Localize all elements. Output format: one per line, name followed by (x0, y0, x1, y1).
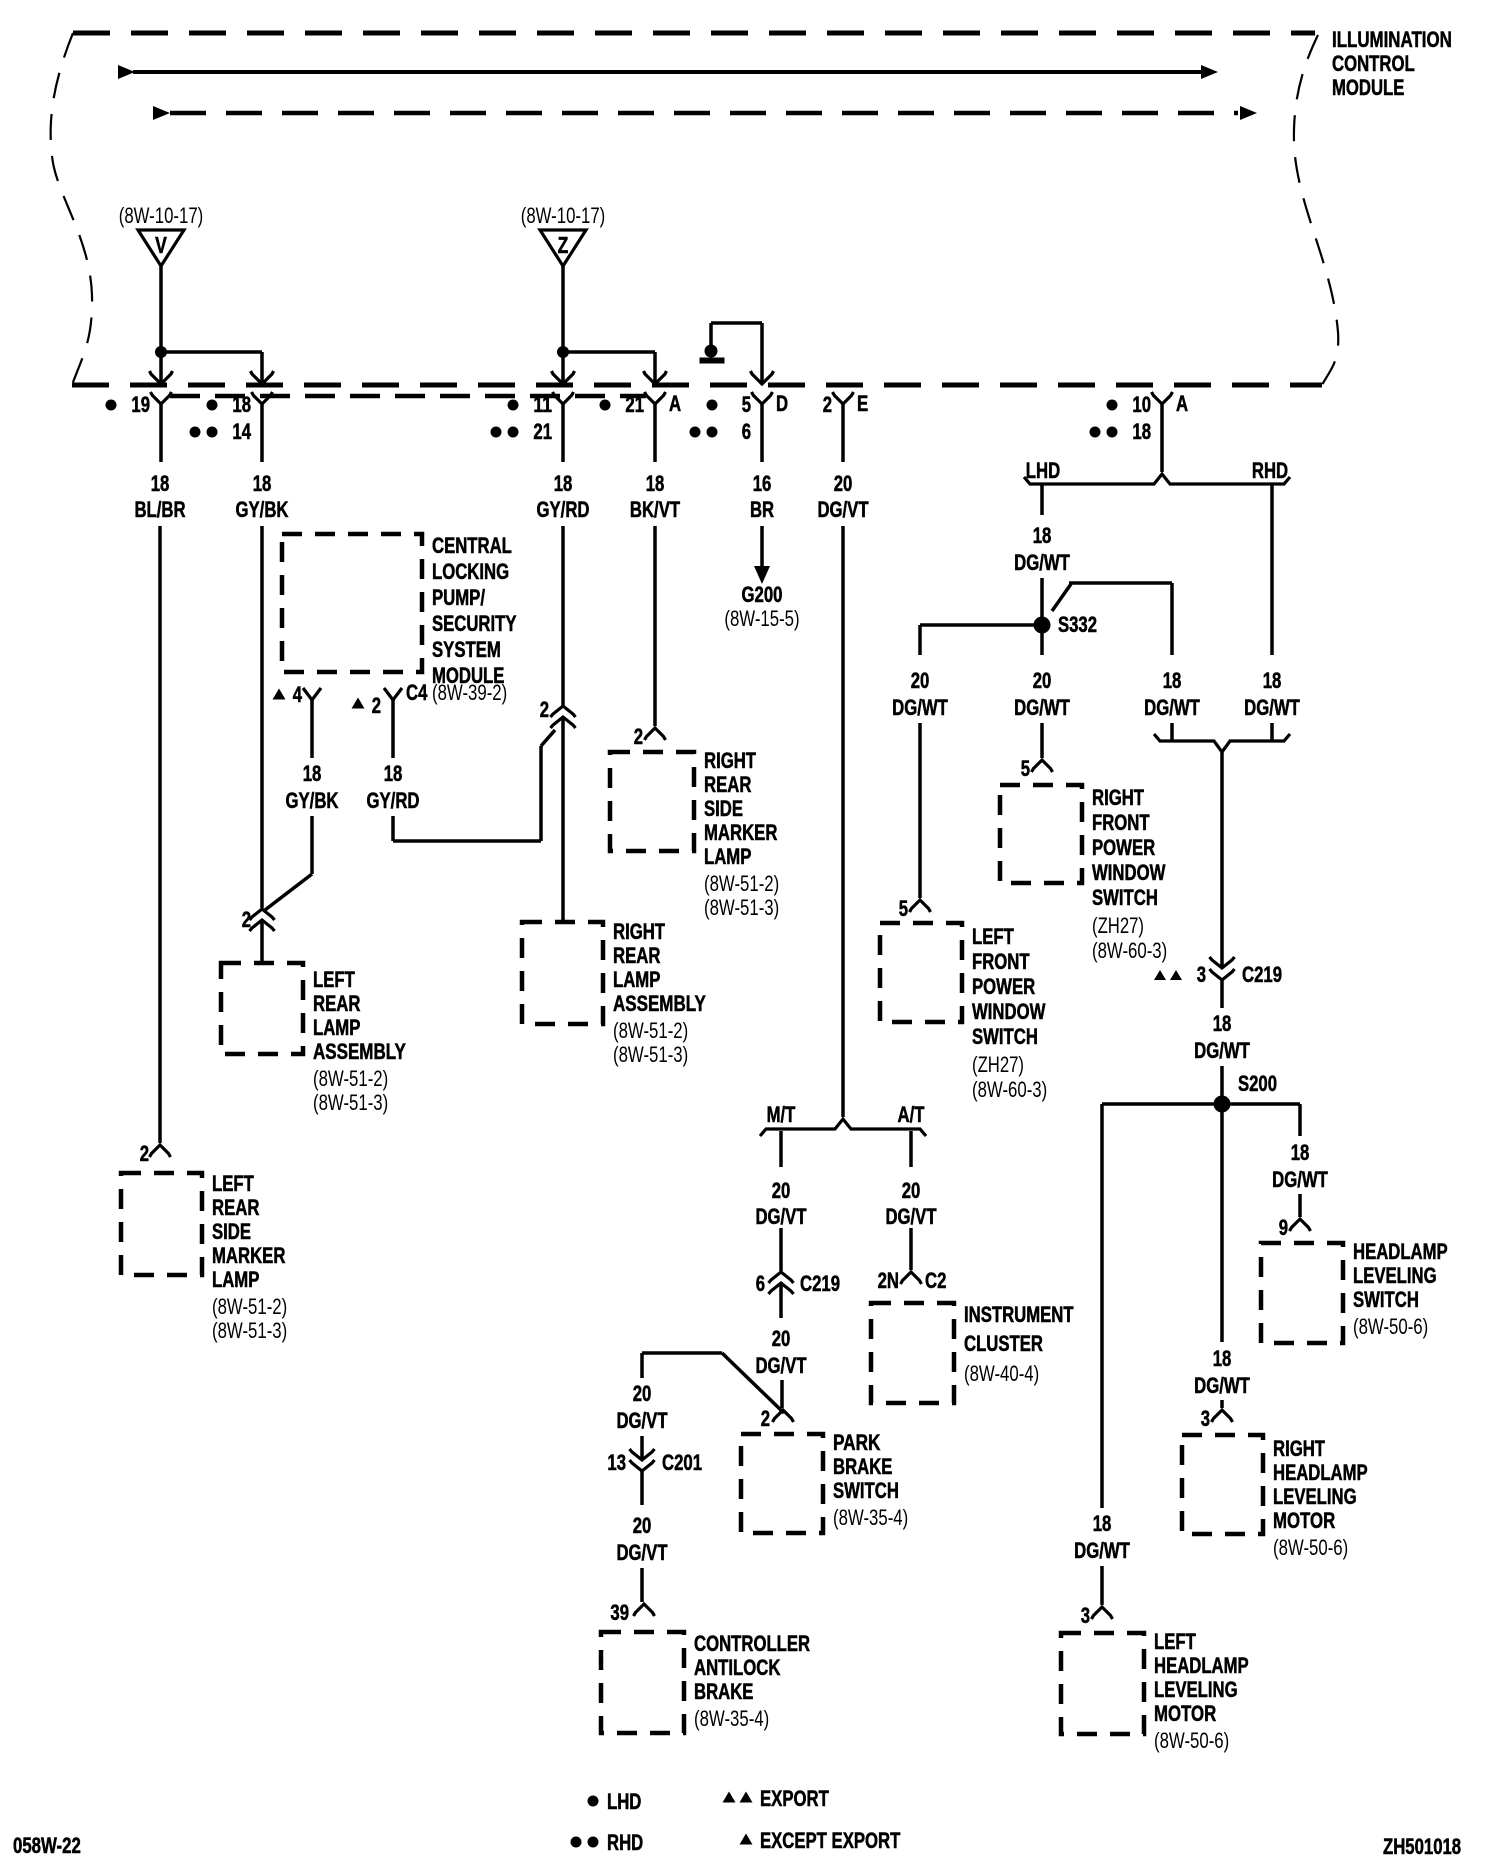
svg-text:C2: C2 (925, 1268, 946, 1293)
svg-text:18: 18 (232, 392, 251, 417)
svg-text:GY/RD: GY/RD (367, 788, 420, 813)
svg-text:S200: S200 (1238, 1071, 1277, 1096)
svg-text:18: 18 (1093, 1511, 1112, 1536)
svg-text:GY/RD: GY/RD (537, 497, 590, 522)
svg-text:SIDE: SIDE (212, 1219, 251, 1244)
svg-text:HEADLAMP: HEADLAMP (1154, 1653, 1249, 1678)
svg-text:RIGHT: RIGHT (1092, 785, 1144, 810)
svg-text:18: 18 (1213, 1011, 1232, 1036)
svg-text:20: 20 (633, 1513, 652, 1538)
svg-text:ASSEMBLY: ASSEMBLY (613, 991, 706, 1016)
svg-text:CENTRAL: CENTRAL (432, 533, 512, 558)
svg-text:DG/WT: DG/WT (1014, 695, 1070, 720)
svg-text:BL/BR: BL/BR (134, 497, 185, 522)
svg-text:18: 18 (303, 761, 322, 786)
svg-text:ZH501018: ZH501018 (1383, 1834, 1461, 1859)
svg-text:LEFT: LEFT (972, 924, 1014, 949)
svg-text:HEADLAMP: HEADLAMP (1353, 1239, 1448, 1264)
svg-text:BRAKE: BRAKE (694, 1679, 753, 1704)
svg-text:D: D (776, 391, 788, 416)
svg-text:21: 21 (625, 392, 644, 417)
svg-text:LHD: LHD (1026, 458, 1060, 483)
svg-text:CONTROLLER: CONTROLLER (694, 1631, 810, 1656)
svg-text:(8W-10-17): (8W-10-17) (119, 203, 204, 228)
svg-text:ASSEMBLY: ASSEMBLY (313, 1039, 406, 1064)
svg-text:LAMP: LAMP (212, 1267, 259, 1292)
svg-text:(8W-51-2): (8W-51-2) (212, 1294, 287, 1319)
svg-text:(8W-60-3): (8W-60-3) (1092, 938, 1167, 963)
svg-text:18: 18 (1033, 523, 1052, 548)
svg-text:(8W-15-5): (8W-15-5) (724, 606, 799, 631)
svg-text:BK/VT: BK/VT (630, 497, 681, 522)
svg-text:20: 20 (772, 1178, 791, 1203)
svg-text:DG/WT: DG/WT (1014, 550, 1070, 575)
svg-text:DG/WT: DG/WT (1194, 1038, 1250, 1063)
svg-text:INSTRUMENT: INSTRUMENT (964, 1302, 1074, 1327)
svg-text:LEVELING: LEVELING (1273, 1484, 1357, 1509)
svg-text:ILLUMINATION: ILLUMINATION (1332, 27, 1452, 52)
svg-text:18: 18 (1291, 1140, 1310, 1165)
svg-text:LHD: LHD (607, 1789, 641, 1814)
svg-text:LEFT: LEFT (1154, 1629, 1196, 1654)
svg-text:(8W-39-2): (8W-39-2) (432, 680, 507, 705)
svg-text:4: 4 (293, 682, 303, 707)
svg-text:18: 18 (646, 471, 665, 496)
svg-text:19: 19 (131, 392, 150, 417)
svg-text:MOTOR: MOTOR (1273, 1508, 1335, 1533)
svg-text:18: 18 (384, 761, 403, 786)
svg-text:CLUSTER: CLUSTER (964, 1331, 1043, 1356)
svg-text:DG/VT: DG/VT (885, 1204, 937, 1229)
svg-text:DG/VT: DG/VT (817, 497, 869, 522)
svg-text:5: 5 (899, 896, 908, 921)
svg-text:GY/BK: GY/BK (236, 497, 289, 522)
svg-text:5: 5 (1021, 756, 1030, 781)
svg-text:G200: G200 (742, 582, 783, 607)
svg-text:058W-22: 058W-22 (13, 1833, 81, 1858)
svg-text:(8W-40-4): (8W-40-4) (964, 1361, 1039, 1386)
svg-text:20: 20 (834, 471, 853, 496)
svg-text:A: A (1176, 391, 1188, 416)
svg-text:MODULE: MODULE (1332, 75, 1404, 100)
svg-text:HEADLAMP: HEADLAMP (1273, 1460, 1368, 1485)
svg-text:MARKER: MARKER (704, 820, 777, 845)
svg-text:LEFT: LEFT (212, 1171, 254, 1196)
svg-text:20: 20 (1033, 668, 1052, 693)
svg-text:BRAKE: BRAKE (833, 1454, 892, 1479)
svg-text:(ZH27): (ZH27) (972, 1052, 1024, 1077)
svg-text:(8W-35-4): (8W-35-4) (833, 1505, 908, 1530)
svg-text:WINDOW: WINDOW (972, 999, 1046, 1024)
svg-text:3: 3 (1197, 962, 1206, 987)
svg-text:Z: Z (558, 232, 569, 258)
svg-text:GY/BK: GY/BK (286, 788, 339, 813)
svg-text:(8W-35-4): (8W-35-4) (694, 1706, 769, 1731)
svg-text:SECURITY: SECURITY (432, 611, 517, 636)
svg-text:RHD: RHD (1252, 458, 1288, 483)
svg-text:RIGHT: RIGHT (704, 748, 756, 773)
svg-text:LAMP: LAMP (613, 967, 660, 992)
svg-text:REAR: REAR (212, 1195, 259, 1220)
svg-text:M/T: M/T (767, 1102, 796, 1127)
svg-text:18: 18 (1163, 668, 1182, 693)
svg-text:2: 2 (540, 697, 549, 722)
svg-text:LEVELING: LEVELING (1353, 1263, 1437, 1288)
svg-text:10: 10 (1132, 392, 1151, 417)
svg-text:(8W-51-2): (8W-51-2) (313, 1066, 388, 1091)
svg-text:RIGHT: RIGHT (1273, 1436, 1325, 1461)
svg-text:21: 21 (533, 419, 552, 444)
svg-text:SWITCH: SWITCH (972, 1024, 1038, 1049)
svg-text:LEFT: LEFT (313, 967, 355, 992)
svg-text:CONTROL: CONTROL (1332, 51, 1415, 76)
svg-text:18: 18 (1132, 419, 1151, 444)
svg-text:18: 18 (1263, 668, 1282, 693)
svg-text:PUMP/: PUMP/ (432, 585, 485, 610)
svg-text:(8W-51-2): (8W-51-2) (704, 871, 779, 896)
svg-text:20: 20 (911, 668, 930, 693)
svg-text:18: 18 (253, 471, 272, 496)
svg-text:DG/WT: DG/WT (1272, 1167, 1328, 1192)
svg-text:C219: C219 (800, 1271, 840, 1296)
svg-text:2: 2 (823, 392, 832, 417)
svg-text:S332: S332 (1058, 612, 1097, 637)
svg-text:DG/VT: DG/VT (616, 1408, 668, 1433)
svg-text:LAMP: LAMP (313, 1015, 360, 1040)
svg-text:20: 20 (902, 1178, 921, 1203)
svg-text:REAR: REAR (313, 991, 360, 1016)
svg-text:C201: C201 (662, 1450, 702, 1475)
svg-text:3: 3 (1201, 1406, 1210, 1431)
svg-text:REAR: REAR (613, 943, 660, 968)
svg-text:E: E (857, 391, 868, 416)
svg-text:V: V (155, 232, 167, 258)
svg-text:18: 18 (1213, 1346, 1232, 1371)
svg-text:2: 2 (140, 1141, 149, 1166)
svg-text:LEVELING: LEVELING (1154, 1677, 1238, 1702)
svg-text:POWER: POWER (972, 974, 1035, 999)
svg-text:EXCEPT EXPORT: EXCEPT EXPORT (760, 1828, 901, 1853)
svg-text:2: 2 (372, 693, 381, 718)
svg-text:SWITCH: SWITCH (1092, 885, 1158, 910)
svg-text:SIDE: SIDE (704, 796, 743, 821)
svg-text:14: 14 (232, 419, 251, 444)
svg-text:FRONT: FRONT (1092, 810, 1150, 835)
svg-text:LAMP: LAMP (704, 844, 751, 869)
svg-text:MOTOR: MOTOR (1154, 1701, 1216, 1726)
svg-text:(8W-50-6): (8W-50-6) (1273, 1535, 1348, 1560)
svg-text:WINDOW: WINDOW (1092, 860, 1166, 885)
svg-text:6: 6 (756, 1271, 765, 1296)
svg-text:11: 11 (533, 392, 552, 417)
svg-text:RHD: RHD (607, 1830, 643, 1855)
svg-text:(8W-51-3): (8W-51-3) (212, 1318, 287, 1343)
svg-text:9: 9 (1279, 1215, 1288, 1240)
svg-text:SWITCH: SWITCH (833, 1478, 899, 1503)
svg-text:DG/WT: DG/WT (1144, 695, 1200, 720)
svg-text:(8W-60-3): (8W-60-3) (972, 1077, 1047, 1102)
svg-text:5: 5 (742, 392, 751, 417)
svg-text:C4: C4 (406, 680, 428, 705)
svg-text:A: A (669, 391, 681, 416)
svg-text:(8W-51-3): (8W-51-3) (704, 895, 779, 920)
svg-text:20: 20 (772, 1326, 791, 1351)
svg-text:C219: C219 (1242, 962, 1282, 987)
svg-text:(8W-51-3): (8W-51-3) (313, 1090, 388, 1115)
svg-text:SWITCH: SWITCH (1353, 1287, 1419, 1312)
svg-text:A/T: A/T (898, 1102, 925, 1127)
svg-text:2: 2 (634, 724, 643, 749)
svg-text:DG/WT: DG/WT (1074, 1538, 1130, 1563)
svg-text:DG/VT: DG/VT (755, 1353, 807, 1378)
svg-text:13: 13 (607, 1450, 626, 1475)
svg-text:FRONT: FRONT (972, 949, 1030, 974)
svg-text:16: 16 (753, 471, 772, 496)
svg-text:MARKER: MARKER (212, 1243, 285, 1268)
svg-text:(ZH27): (ZH27) (1092, 913, 1144, 938)
svg-text:3: 3 (1081, 1603, 1090, 1628)
svg-text:DG/WT: DG/WT (1194, 1373, 1250, 1398)
svg-text:(8W-50-6): (8W-50-6) (1154, 1728, 1229, 1753)
svg-text:EXPORT: EXPORT (760, 1786, 829, 1811)
svg-text:(8W-50-6): (8W-50-6) (1353, 1314, 1428, 1339)
svg-text:BR: BR (750, 497, 774, 522)
svg-text:SYSTEM: SYSTEM (432, 637, 501, 662)
svg-text:20: 20 (633, 1381, 652, 1406)
svg-text:DG/VT: DG/VT (616, 1540, 668, 1565)
svg-text:REAR: REAR (704, 772, 751, 797)
svg-text:6: 6 (742, 419, 751, 444)
svg-text:(8W-10-17): (8W-10-17) (521, 203, 606, 228)
svg-text:18: 18 (554, 471, 573, 496)
svg-text:2N: 2N (878, 1268, 899, 1293)
svg-text:(8W-51-2): (8W-51-2) (613, 1018, 688, 1043)
svg-text:ANTILOCK: ANTILOCK (694, 1655, 780, 1680)
svg-text:DG/VT: DG/VT (755, 1204, 807, 1229)
svg-text:2: 2 (242, 907, 251, 932)
svg-text:(8W-51-3): (8W-51-3) (613, 1042, 688, 1067)
svg-text:18: 18 (151, 471, 170, 496)
svg-text:DG/WT: DG/WT (892, 695, 948, 720)
svg-text:2: 2 (761, 1406, 770, 1431)
svg-text:39: 39 (610, 1600, 629, 1625)
svg-text:PARK: PARK (833, 1430, 880, 1455)
svg-text:POWER: POWER (1092, 835, 1155, 860)
svg-text:RIGHT: RIGHT (613, 919, 665, 944)
svg-text:LOCKING: LOCKING (432, 559, 509, 584)
svg-text:DG/WT: DG/WT (1244, 695, 1300, 720)
